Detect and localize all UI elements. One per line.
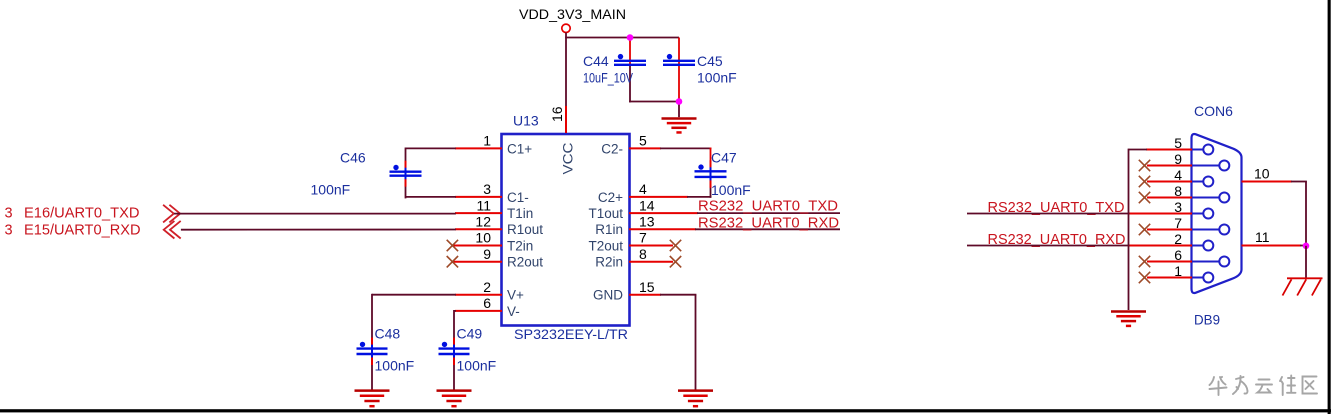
capacitor C48 [357,338,388,365]
svg-text:GND: GND [593,288,623,303]
U13 pin 1 stub [455,147,502,149]
CON6 pin 9 circle [1219,161,1229,171]
wire GND net pin15 [660,294,696,296]
svg-text:T2in: T2in [507,238,533,253]
svg-text:T1in: T1in [507,206,533,221]
svg-text:9: 9 [483,246,491,262]
U13 pin 12 stub [455,228,502,230]
wire V+ down to C48 [371,294,373,348]
wire GND vertical pin15 [695,295,697,391]
svg-text:7: 7 [639,230,647,246]
wire VDD vertical to U13 pin16 [565,33,567,107]
svg-text:C47: C47 [711,150,737,166]
svg-text:C1+: C1+ [507,141,532,156]
no-connect X at CON6 pin 8 [1139,192,1150,203]
CON6 pin 8 stub [1147,197,1192,199]
wire pin5 to C47 [660,147,711,149]
chassis ground [1283,278,1323,295]
svg-text:C46: C46 [340,150,366,166]
CON6 pin 2 lead [1192,245,1203,247]
U13 pin 3 stub [455,196,502,198]
CON6 pin 1 lead [1192,277,1203,279]
wire pin1 to C46 [406,147,456,149]
CON6 pin 3 circle [1203,209,1213,219]
capacitor C45 [663,54,695,65]
CON6 pin 10 stub [1242,181,1293,183]
wire C45 vertical [678,38,680,102]
CON6 pin 11 stub [1242,245,1302,247]
svg-text:RS232_UART0_RXD: RS232_UART0_RXD [698,216,839,232]
wire C47 top vertical [710,148,712,170]
CON6 pin 7 stub [1147,229,1192,231]
svg-text:C2-: C2- [601,141,623,156]
svg-text:U13: U13 [513,113,539,129]
svg-text:R2in: R2in [595,255,623,270]
off-page connector TXD chevrons [163,205,180,223]
no-connect X at U13 pin 9 [447,256,458,267]
wire pin4 to C47 [687,196,711,198]
CON6 pin 6 lead [1192,261,1219,263]
capacitor C46 [390,161,422,187]
svg-text:C44: C44 [583,53,609,69]
CON6 pin 9 lead [1192,165,1219,167]
U13 pin 4 stub [629,196,688,198]
svg-text:RS232_UART0_TXD: RS232_UART0_TXD [698,199,838,215]
svg-text:12: 12 [475,214,491,230]
watermark Chinese characters (gray) [1210,376,1318,396]
wire C44 bottom [629,66,631,103]
svg-text:VDD_3V3_MAIN: VDD_3V3_MAIN [519,6,626,22]
CON6 pin 2 stub [1130,245,1193,247]
wire RS232_UART0_RXD to CON6 pin2 [967,245,1130,247]
CON6 pin 4 circle [1203,177,1213,187]
U13 pin 9 stub [452,261,502,263]
svg-text:16: 16 [549,106,565,122]
wire C44 top [629,38,631,65]
IC U13 SP3232EEY-L/TR body [502,134,630,326]
svg-text:VCC: VCC [561,142,576,174]
CON6 pin 7 lead [1192,229,1219,231]
svg-text:8: 8 [639,246,647,262]
svg-text:R1in: R1in [595,222,623,237]
wire pin 10 corner [1291,181,1307,183]
power symbol VDD_3V3_MAIN [519,6,626,33]
svg-text:100nF: 100nF [697,70,737,86]
CON6 pin 8 lead [1192,197,1219,199]
wire C48 to ground [371,355,373,391]
wire E16/UART0_TXD net [174,213,456,215]
ground under C45 [662,119,697,133]
svg-text:T2out: T2out [588,238,623,253]
svg-text:C48: C48 [375,326,401,342]
svg-text:C2+: C2+ [598,190,623,205]
U13 pin 5 stub [629,147,661,149]
svg-text:C49: C49 [457,326,483,342]
U13 pin 6 stub [455,310,502,312]
svg-text:V-: V- [507,304,520,319]
CON6 pin 5 stub [1146,149,1192,151]
ground under CON6 bus [1111,312,1146,326]
wire pin3 to C46 [406,196,456,198]
svg-text:T1out: T1out [588,206,623,221]
wire pin 11 to junction [1300,245,1306,247]
no-connect X at U13 pin 8 [670,256,681,267]
svg-text:11: 11 [476,197,491,213]
CON6 pin 4 stub [1147,181,1192,183]
wire V- net [454,310,456,312]
svg-text:CON6: CON6 [1194,103,1233,119]
ground under C48 [355,391,390,407]
svg-text:14: 14 [639,197,655,213]
U13 pin 16 stub [565,106,567,133]
U13 pin 13 stub [629,228,696,230]
wire junction to chassis ground [1305,246,1307,278]
CON6 pin 4 lead [1192,181,1203,183]
no-connect X at CON6 pin 1 [1139,272,1150,283]
svg-text:4: 4 [639,181,647,197]
wire V+ net [372,294,456,296]
svg-text:3: 3 [5,223,13,239]
svg-text:13: 13 [639,214,655,230]
svg-text:E15/UART0_RXD: E15/UART0_RXD [24,223,141,239]
U13 pin 10 stub [452,245,502,247]
no-connect X at U13 pin 7 [670,240,681,251]
ground under C49 [437,391,472,407]
svg-text:V+: V+ [507,288,524,303]
svg-text:10: 10 [475,230,491,246]
svg-text:100nF: 100nF [711,182,751,198]
capacitor C47 [695,160,727,188]
junction pins 10-11 [1303,243,1310,250]
CON6 pin 5 circle [1203,145,1213,155]
junction bottom rail at C45 [676,98,683,105]
wire RS232_UART0_TXD at U13 [697,212,840,214]
no-connect X at CON6 pin 7 [1139,224,1150,235]
wire junction to ground [678,102,680,118]
wire RS232_UART0_TXD to CON6 pin3 [967,213,1130,215]
svg-text:100nF: 100nF [311,182,351,198]
wire C47 bottom vertical [710,178,712,198]
wire C49 to ground [453,355,455,391]
svg-text:R1out: R1out [507,222,543,237]
capacitor C49 [439,338,470,365]
no-connect X at CON6 pin 9 [1139,160,1150,171]
svg-text:10: 10 [1254,166,1270,182]
wire C46 vertical [405,148,407,199]
junction top rail at C44 [627,34,634,41]
U13 pin 15 stub [629,294,661,296]
U13 pin 8 stub [629,261,673,263]
wire V- down to C49 [453,310,455,348]
svg-text:C1-: C1- [507,190,529,205]
svg-text:DB9: DB9 [1194,312,1220,328]
U13 pin 2 stub [455,294,502,296]
svg-text:100nF: 100nF [457,358,497,374]
svg-text:6: 6 [483,295,491,311]
svg-text:100nF: 100nF [375,358,415,374]
CON6 pin 8 circle [1219,193,1229,203]
svg-text:1: 1 [483,133,491,149]
off-page connector RXD chevrons [164,221,181,239]
CON6 pin 7 circle [1219,225,1229,235]
CON6 pin 1 stub [1147,277,1192,279]
U13 pin 11 stub [455,212,502,214]
no-connect X at CON6 pin 6 [1139,256,1150,267]
CON6 pin 3 stub [1130,213,1193,215]
svg-text:11: 11 [1255,229,1270,245]
svg-text:5: 5 [639,133,647,149]
CON6 pin 6 circle [1219,257,1229,267]
connector CON6 DB9 body [1192,134,1242,293]
U13 pin 14 stub [629,212,698,214]
wire VDD horizontal rail [565,37,679,39]
no-connect X at CON6 pin 4 [1139,176,1150,187]
svg-text:R2out: R2out [507,255,543,270]
svg-text:3: 3 [483,181,491,197]
svg-text:10uF_10V: 10uF_10V [583,70,634,86]
ground under pin 15 [678,391,713,407]
CON6 pin 5 lead [1192,149,1203,151]
CON6 pin 1 circle [1203,273,1213,283]
svg-text:2: 2 [483,279,491,295]
border bottom [0,409,1331,412]
CON6 pin 6 stub [1147,261,1192,263]
capacitor C44 [614,54,646,65]
wire RS232_UART0_RXD at U13 [695,228,840,230]
wire E15/UART0_RXD net [181,229,456,231]
wire pin 10 down to junction [1305,182,1307,246]
U13 pin 7 stub [629,245,673,247]
wire ground bus vertical [1128,149,1130,310]
svg-text:SP3232EEY-L/TR: SP3232EEY-L/TR [514,326,628,342]
wire bottom rail C44-C45 [629,101,680,103]
CON6 pin 3 lead [1192,213,1203,215]
svg-text:3: 3 [5,205,13,221]
wire pin5 to ground bus [1129,149,1148,151]
CON6 pin 9 stub [1147,165,1192,167]
svg-text:15: 15 [639,279,655,295]
CON6 pin 2 circle [1203,241,1213,251]
svg-text:C45: C45 [697,53,723,69]
no-connect X at U13 pin 10 [447,240,458,251]
svg-text:E16/UART0_TXD: E16/UART0_TXD [24,205,140,221]
border right [1328,0,1331,414]
